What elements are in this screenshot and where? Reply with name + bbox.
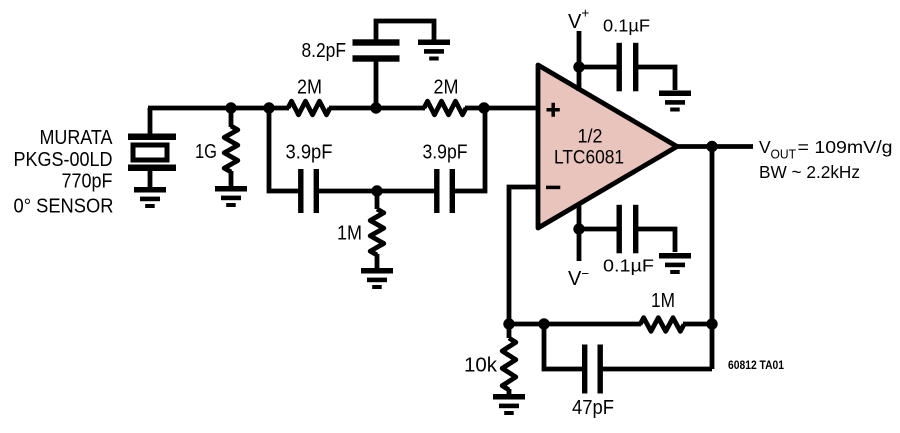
svg-text:PKGS-00LD: PKGS-00LD bbox=[14, 149, 113, 171]
capacitor C6 47pF bbox=[544, 324, 712, 394]
capacitor C5 0.1uF (V- bypass) bbox=[579, 205, 675, 254]
wire: V+ supply into op-amp bbox=[577, 31, 582, 91]
ground (8.2pF) bbox=[418, 40, 450, 46]
svg-text:3.9pF: 3.9pF bbox=[423, 142, 468, 164]
svg-text:LTC6081: LTC6081 bbox=[554, 148, 624, 169]
svg-text:770pF: 770pF bbox=[62, 171, 113, 193]
label: MURATA PKGS-00LD 770pF 0° SENSOR bbox=[14, 127, 114, 218]
ground (sensor) bbox=[134, 187, 166, 193]
node: sensor/1G junction bbox=[225, 102, 236, 113]
resistor R4 1M (feedback) bbox=[640, 318, 684, 332]
wire: output to feedback bbox=[710, 147, 715, 370]
svg-text:2M: 2M bbox=[434, 77, 459, 99]
svg-text:BW ~ 2.2kHz: BW ~ 2.2kHz bbox=[759, 162, 860, 182]
resistor R5 10k bbox=[502, 324, 516, 395]
node: V+ bypass junction bbox=[573, 61, 584, 72]
sensor X1 MURATA PKGS-00LD piezo element bbox=[128, 108, 176, 188]
svg-text:47pF: 47pF bbox=[572, 397, 614, 419]
wire: feedback row bbox=[509, 322, 641, 327]
wire: between C2 and C3 bbox=[316, 189, 437, 194]
capacitor C1 8.2pF bbox=[353, 21, 435, 108]
node: inverting feedback junction bbox=[503, 318, 514, 329]
svg-text:8.2pF: 8.2pF bbox=[302, 40, 347, 62]
svg-text:1/2: 1/2 bbox=[578, 127, 603, 148]
ground (tee 1M) bbox=[361, 268, 393, 274]
resistor R2 2M (right) bbox=[424, 101, 466, 115]
node: T-network center bbox=[371, 185, 382, 196]
svg-text:0.1µF: 0.1µF bbox=[603, 16, 650, 36]
resistor R 1G bbox=[224, 108, 238, 187]
label: + input symbol bbox=[547, 103, 560, 117]
wire: output bbox=[677, 144, 753, 149]
label: - input symbol bbox=[546, 186, 560, 190]
node: 1G / T-network junction bbox=[263, 102, 274, 113]
node: feedback output junction bbox=[706, 318, 717, 329]
wire: V- supply from op-amp bbox=[577, 203, 582, 261]
node: output junction bbox=[706, 141, 717, 152]
capacitor C4 0.1uF (V+ bypass) bbox=[579, 43, 675, 92]
node: V- bypass junction bbox=[573, 223, 584, 234]
svg-text:MURATA: MURATA bbox=[40, 127, 114, 149]
svg-text:1M: 1M bbox=[651, 290, 675, 312]
wire: T-network lower branch right bbox=[452, 108, 485, 191]
svg-text:0.1µF: 0.1µF bbox=[603, 256, 654, 276]
svg-text:60812 TA01: 60812 TA01 bbox=[728, 358, 784, 372]
node: 2M-2M / 8.2pF junction bbox=[370, 102, 381, 113]
ground (10k) bbox=[493, 394, 525, 400]
wire: T-network lower branch left bbox=[269, 108, 299, 191]
svg-text:= 109mV/g: = 109mV/g bbox=[798, 137, 893, 157]
ground (V- bypass) bbox=[659, 253, 691, 259]
svg-text:2M: 2M bbox=[297, 77, 322, 99]
wire: inverting input stub bbox=[509, 187, 540, 324]
node: + input junction bbox=[478, 102, 489, 113]
resistor R3 1M (tee leg) bbox=[370, 191, 384, 269]
svg-text:1G: 1G bbox=[195, 141, 217, 163]
op-amp U1 1/2 LTC6081 bbox=[538, 65, 677, 228]
svg-text:0° SENSOR: 0° SENSOR bbox=[14, 196, 114, 218]
capacitor C3 3.9pF (right) bbox=[434, 169, 439, 213]
svg-text:3.9pF: 3.9pF bbox=[286, 142, 333, 164]
resistor R1 2M (left) bbox=[288, 101, 330, 115]
capacitor C2 3.9pF (left) bbox=[298, 169, 303, 213]
svg-text:1M: 1M bbox=[337, 223, 362, 245]
svg-text:V: V bbox=[759, 137, 771, 157]
svg-text:10k: 10k bbox=[464, 355, 498, 377]
ground (V+ bypass) bbox=[659, 91, 691, 97]
node: 47pF branch junction bbox=[538, 318, 549, 329]
ground (1G) bbox=[215, 186, 247, 192]
svg-text:OUT: OUT bbox=[771, 148, 797, 162]
wire: main input net from sensor to op-amp + input bbox=[148, 108, 153, 110]
